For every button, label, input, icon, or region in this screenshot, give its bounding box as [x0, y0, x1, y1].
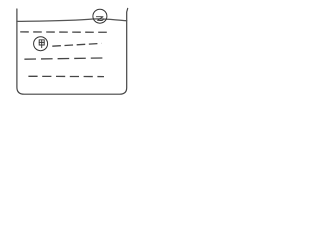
ball jia (circle): [34, 37, 48, 51]
dashed water line 3: [24, 58, 107, 59]
dashed water line 2: [52, 43, 101, 46]
container beaker outline: [17, 8, 128, 94]
dashed water line 1: [20, 31, 111, 33]
dashed water line 4: [28, 75, 104, 77]
glyph yi 乙: [96, 17, 103, 21]
ball yi (circle): [93, 9, 107, 23]
glyph jia 甲: [39, 40, 44, 48]
water surface line: [17, 19, 127, 22]
